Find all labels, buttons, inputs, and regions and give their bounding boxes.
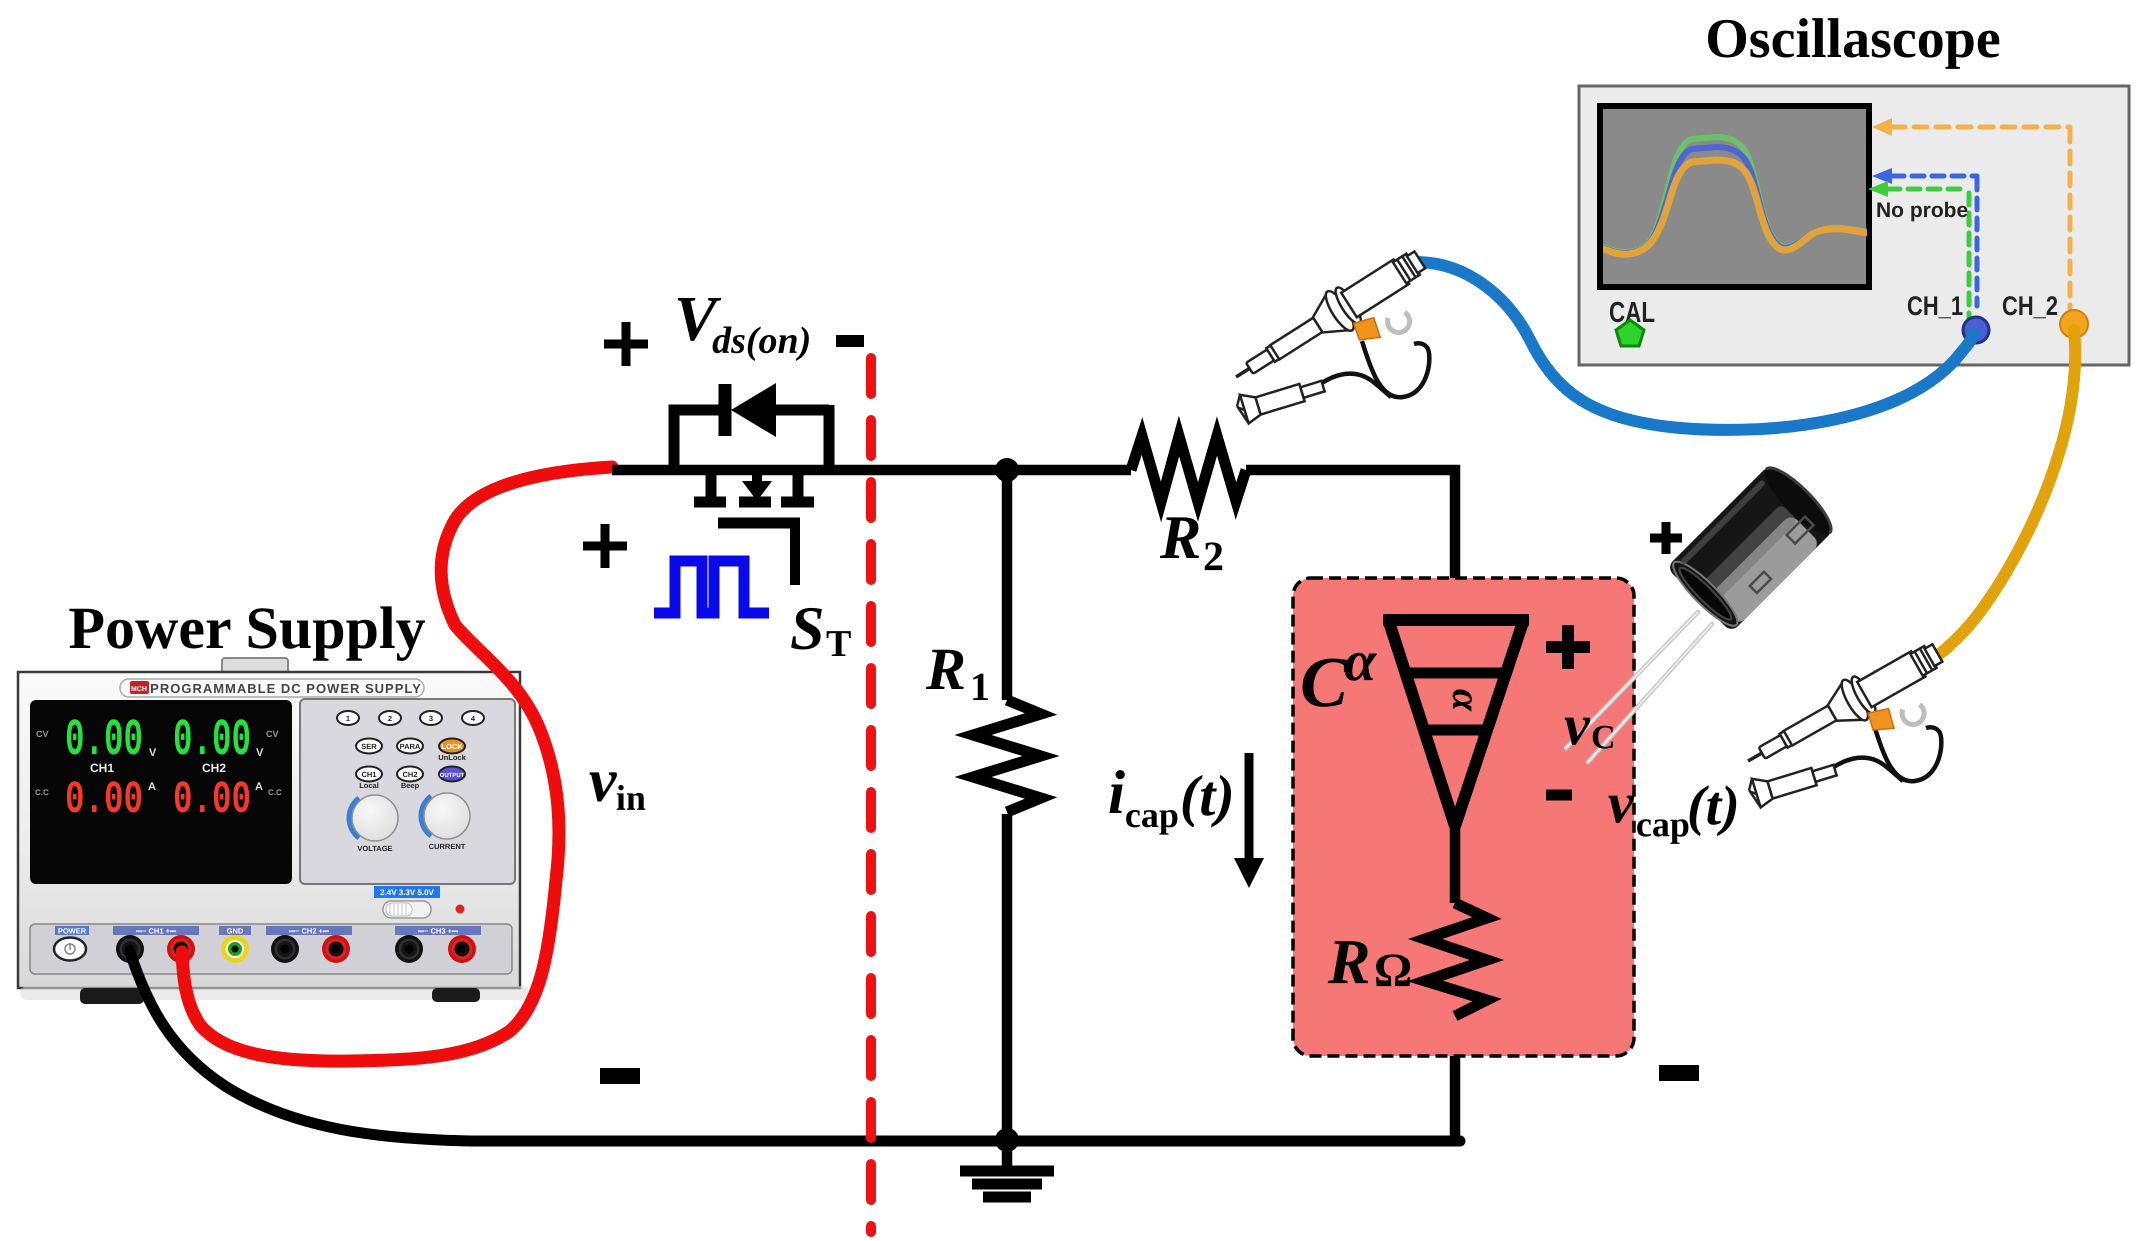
svg-text:cap: cap: [1636, 804, 1690, 844]
svg-text:0.00: 0.00: [65, 774, 143, 826]
svg-text:R: R: [925, 636, 966, 702]
svg-text:V: V: [256, 747, 264, 759]
svg-text:v: v: [589, 747, 618, 815]
svg-text:POWER: POWER: [58, 927, 87, 936]
svg-text:Power Supply: Power Supply: [68, 595, 425, 661]
svg-text:CH1: CH1: [90, 761, 114, 775]
svg-text:R: R: [1327, 926, 1371, 997]
svg-text:1: 1: [346, 714, 350, 723]
svg-text:UnLock: UnLock: [438, 753, 466, 762]
svg-text:Beep: Beep: [401, 781, 420, 790]
svg-text:A: A: [148, 781, 156, 793]
svg-text:2.4V 3.3V 5.0V: 2.4V 3.3V 5.0V: [380, 888, 434, 897]
svg-text:PROGRAMMABLE DC POWER SUPPLY: PROGRAMMABLE DC POWER SUPPLY: [150, 681, 422, 696]
svg-text:CH2: CH2: [402, 770, 417, 779]
svg-text:cap: cap: [1125, 795, 1179, 835]
svg-text:CH2: CH2: [202, 761, 226, 775]
svg-text:PARA: PARA: [400, 742, 421, 751]
svg-text:SER: SER: [361, 742, 377, 751]
svg-text:ds(on): ds(on): [712, 320, 811, 362]
svg-text:C.C: C.C: [35, 788, 49, 797]
svg-text:(t): (t): [1180, 763, 1235, 828]
svg-text:CV: CV: [266, 729, 279, 739]
svg-text:Ω: Ω: [1374, 944, 1412, 997]
svg-text:MCH: MCH: [131, 686, 147, 693]
svg-text:No probe: No probe: [1876, 199, 1968, 222]
svg-text:LOCK: LOCK: [441, 742, 463, 751]
svg-text:R: R: [1159, 504, 1201, 572]
svg-text:(t): (t): [1687, 775, 1740, 837]
svg-text:S: S: [790, 595, 825, 663]
svg-text:⎓− CH3 +⎓: ⎓− CH3 +⎓: [418, 927, 458, 936]
svg-text:C: C: [1300, 642, 1349, 722]
svg-text:CV: CV: [36, 729, 49, 739]
svg-text:in: in: [616, 778, 646, 818]
svg-text:A: A: [255, 781, 263, 793]
svg-text:1: 1: [970, 664, 990, 709]
svg-text:T: T: [826, 623, 851, 665]
svg-text:v: v: [1608, 770, 1635, 835]
svg-text:i: i: [1108, 759, 1125, 827]
svg-text:Local: Local: [359, 781, 379, 790]
svg-text:⎓− CH1 +⎓: ⎓− CH1 +⎓: [136, 927, 176, 936]
svg-text:V: V: [149, 747, 157, 759]
svg-text:C.C: C.C: [268, 788, 282, 797]
svg-text:2: 2: [388, 714, 392, 723]
svg-text:v: v: [1564, 692, 1591, 757]
svg-text:3: 3: [429, 714, 433, 723]
svg-text:Oscillascope: Oscillascope: [1705, 8, 2001, 70]
svg-text:α: α: [1344, 628, 1377, 693]
svg-text:OUTPUT: OUTPUT: [440, 772, 465, 779]
svg-text:CH1: CH1: [361, 770, 376, 779]
svg-text:GND: GND: [227, 927, 244, 936]
svg-text:VOLTAGE: VOLTAGE: [357, 844, 392, 853]
svg-text:⎓− CH2 +⎓: ⎓− CH2 +⎓: [289, 927, 329, 936]
svg-text:α: α: [1444, 689, 1489, 712]
svg-text:C: C: [1591, 719, 1616, 756]
svg-text:CH_1: CH_1: [1907, 291, 1963, 321]
svg-text:CURRENT: CURRENT: [429, 842, 466, 851]
svg-text:0.00: 0.00: [173, 774, 251, 826]
svg-text:2: 2: [1203, 534, 1224, 580]
svg-text:CH_2: CH_2: [2002, 291, 2058, 321]
